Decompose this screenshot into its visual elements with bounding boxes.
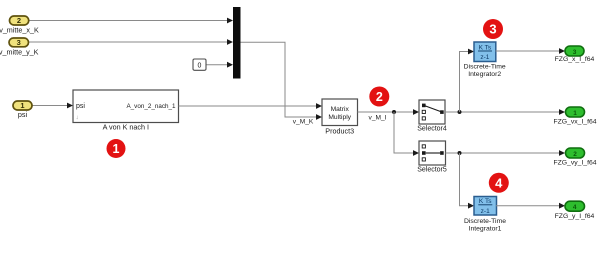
inport 2 v_mitte_x_K — [0, 16, 39, 35]
Discrete-Time Integrator2 — [464, 42, 506, 78]
Selector4 — [417, 100, 447, 132]
svg-text:2: 2 — [17, 16, 21, 25]
wire junction down to integrator1 — [460, 153, 469, 206]
outport FZG_vx_I_f64 — [553, 107, 596, 126]
Product3 matrix multiply — [322, 99, 358, 136]
node junction 2 — [458, 110, 462, 114]
mux — [233, 7, 241, 79]
svg-text:4: 4 — [573, 204, 577, 211]
svg-text:FZG_y_I_f64: FZG_y_I_f64 — [555, 213, 595, 220]
svg-text:K Ts: K Ts — [479, 198, 492, 205]
svg-text:Discrete-Time: Discrete-Time — [464, 63, 506, 70]
constant 0 — [193, 59, 206, 70]
wire port2 to mux — [29, 20, 228, 22]
svg-text:A von K nach I: A von K nach I — [103, 123, 149, 132]
node junction 3 — [458, 151, 462, 155]
svg-text:Discrete-Time: Discrete-Time — [464, 218, 506, 225]
wire port3 to mux — [29, 41, 228, 43]
wire junction down to Selector5 — [394, 112, 414, 153]
wire integrator1 to outport y — [496, 205, 560, 207]
wire subsystem to Product3 input 1 — [179, 105, 317, 107]
subsystem A von K nach I — [73, 90, 179, 132]
outport FZG_y_I_f64 — [555, 201, 595, 220]
inport 3 v_mitte_y_K — [0, 38, 39, 57]
node junction 1 — [392, 110, 396, 114]
svg-text:2: 2 — [573, 151, 577, 158]
Discrete-Time Integrator1 — [464, 197, 506, 233]
badge 2 — [369, 87, 389, 107]
svg-text:1: 1 — [20, 101, 24, 110]
svg-text:0: 0 — [198, 62, 202, 69]
svg-text:v_mitte_x_K: v_mitte_x_K — [0, 26, 39, 35]
wire junction up to integrator2 — [460, 52, 469, 113]
wire constant to mux — [206, 64, 228, 66]
wire Selector5 output to outport vy — [446, 152, 560, 154]
svg-text:1: 1 — [573, 110, 577, 117]
svg-text:z-1: z-1 — [480, 54, 489, 61]
svg-text:K Ts: K Ts — [479, 44, 492, 51]
svg-text:v_mitte_y_K: v_mitte_y_K — [0, 48, 39, 57]
svg-text:3: 3 — [489, 22, 496, 37]
svg-text:3: 3 — [573, 49, 577, 56]
inport 1 psi — [13, 101, 32, 119]
svg-text:FZG_x_I_f64: FZG_x_I_f64 — [555, 56, 595, 63]
svg-text:Multiply: Multiply — [328, 114, 351, 121]
svg-text:↓: ↓ — [76, 114, 79, 121]
Selector5 — [417, 141, 447, 173]
svg-text:psi: psi — [76, 103, 85, 110]
svg-text:A_von_2_nach_1: A_von_2_nach_1 — [126, 103, 176, 110]
svg-text:Selector4: Selector4 — [417, 125, 447, 132]
badge 4 — [489, 173, 509, 193]
svg-text:v_M_K: v_M_K — [293, 118, 314, 125]
svg-text:z-1: z-1 — [481, 208, 490, 215]
wire Product3 output to Selector4 — [358, 111, 414, 113]
badge 3 — [483, 19, 503, 39]
svg-text:3: 3 — [17, 38, 21, 47]
outport FZG_vy_I_f64 — [553, 148, 596, 167]
badge 1 — [107, 139, 126, 158]
svg-text:Selector5: Selector5 — [417, 166, 447, 173]
wire mux output to Product3 input 2 — [241, 42, 317, 117]
wire port1 to subsystem — [32, 105, 68, 107]
svg-text:psi: psi — [18, 110, 28, 119]
svg-text:FZG_vy_I_f64: FZG_vy_I_f64 — [553, 160, 596, 167]
svg-text:1: 1 — [113, 142, 120, 156]
svg-text:Integrator2: Integrator2 — [468, 71, 501, 78]
svg-text:Product3: Product3 — [325, 127, 354, 136]
svg-text:v_M_I: v_M_I — [369, 114, 387, 121]
wire integrator2 to outport x — [496, 50, 560, 52]
svg-text:FZG_vx_I_f64: FZG_vx_I_f64 — [553, 119, 596, 126]
svg-text:Matrix: Matrix — [331, 106, 350, 113]
wire Selector4 output to outport vx — [445, 111, 560, 113]
svg-text:2: 2 — [376, 90, 383, 104]
svg-text:4: 4 — [495, 175, 503, 190]
svg-text:Integrator1: Integrator1 — [469, 225, 502, 232]
outport FZG_x_I_f64 — [555, 46, 595, 63]
